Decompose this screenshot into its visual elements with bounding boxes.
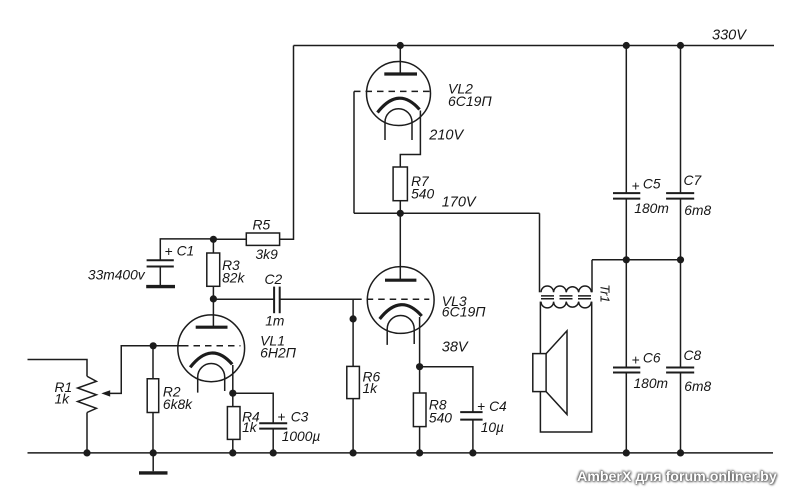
capacitor C5 (613, 193, 640, 199)
wire secondary left lead to speaker (539, 302, 541, 354)
wire R6 top lead (352, 299, 354, 366)
wire R5 left to node (213, 238, 246, 240)
svg-text:C1: C1 (177, 243, 195, 258)
svg-text:+: + (632, 178, 640, 193)
svg-text:C6: C6 (643, 350, 661, 365)
svg-text:6m8: 6m8 (684, 203, 711, 218)
tube VL3 heater (387, 316, 414, 345)
transformer Tr1 secondary winding (541, 302, 591, 308)
ground bar under C1 (146, 285, 175, 288)
svg-text:1k: 1k (55, 392, 71, 407)
tube VL3 anode (385, 279, 416, 282)
node R3 / VL1 anode / C2 (210, 295, 217, 302)
tube VL2 grid (dashed) (354, 90, 432, 92)
wire C1 bottom lead (159, 267, 161, 286)
wire C7 bottom lead (680, 199, 682, 260)
svg-text:C8: C8 (684, 348, 702, 363)
svg-text:170V: 170V (442, 194, 477, 210)
svg-text:C5: C5 (643, 176, 661, 191)
node R1 / bottom rail (83, 449, 90, 456)
svg-text:6Н2П: 6Н2П (260, 345, 297, 361)
svg-text:180m: 180m (634, 201, 669, 216)
capacitor C6 (613, 368, 640, 373)
wire VL3 cathode lead (419, 317, 421, 367)
svg-text:6С19П: 6С19П (442, 303, 486, 319)
wire 170V rail (354, 212, 540, 214)
transformer Tr1 core (541, 295, 591, 297)
svg-text:R5: R5 (253, 217, 271, 232)
ground (152, 453, 154, 471)
wire C8 top lead (680, 260, 682, 368)
node 330V rail / VL2 anode (397, 42, 404, 49)
tube VL2 heater (385, 109, 412, 140)
wire 170V rail drop to transformer (539, 213, 541, 292)
tube VL2 cathode (378, 98, 420, 112)
svg-text:330V: 330V (712, 28, 747, 44)
speaker driver box (533, 354, 546, 392)
wire bottom common rail (28, 452, 774, 454)
wire C5 top lead (625, 46, 627, 194)
resistor R4 (232, 393, 234, 406)
capacitor C8 (666, 368, 694, 373)
svg-text:38V: 38V (442, 339, 469, 355)
tube VL1 heater (198, 364, 225, 393)
wire C8 bottom lead (680, 373, 682, 453)
wire VL3 anode lead (399, 213, 401, 280)
svg-text:180m: 180m (634, 376, 669, 391)
tube VL3 grid (dashed) (355, 298, 429, 300)
node 330V rail / C7 (677, 42, 684, 49)
resistor R6 (347, 366, 360, 398)
node 170V (397, 210, 404, 217)
wire VL2 grid drop to 170V rail (353, 91, 355, 213)
svg-text:6k8k: 6k8k (163, 397, 193, 412)
svg-text:540: 540 (429, 410, 452, 425)
node R6 / bottom rail (350, 449, 357, 456)
node R2 / bottom rail / ground (150, 449, 157, 456)
capacitor C2 (274, 287, 280, 314)
tube VL2 anode (384, 72, 417, 75)
node 330V rail / C5 (623, 42, 630, 49)
node on R6 lead (350, 315, 357, 322)
svg-text:+: + (632, 352, 640, 367)
resistor R2 (152, 346, 154, 379)
capacitor C4 (460, 412, 482, 420)
node VL1 grid / R2 (150, 342, 157, 349)
node VL3 cathode / R8 / C4 (416, 363, 423, 370)
svg-text:+: + (277, 409, 285, 424)
tube VL1 cathode (190, 353, 232, 367)
capacitor C3 (259, 423, 287, 428)
watermark AmberX (577, 469, 777, 485)
wire speaker bottom loop (540, 302, 591, 432)
tube VL2 envelope (367, 62, 431, 126)
svg-text:Tr1: Tr1 (598, 284, 613, 303)
wire node to C1 (160, 239, 213, 260)
tube VL3 envelope (367, 267, 434, 334)
wire C6 top lead (625, 260, 627, 368)
svg-text:1k: 1k (363, 381, 379, 396)
svg-text:3k9: 3k9 (256, 247, 279, 262)
node R8 / bottom rail (416, 449, 423, 456)
node midrail / C7-C8 (677, 256, 684, 263)
svg-text:1000µ: 1000µ (282, 429, 321, 444)
wire cathode node to C3 (233, 393, 273, 423)
svg-text:33m400v: 33m400v (88, 268, 146, 283)
tube VL1 grid (dashed) (182, 345, 241, 347)
svg-text:210V: 210V (428, 128, 464, 144)
svg-text:1m: 1m (265, 314, 284, 329)
svg-text:6С19П: 6С19П (448, 93, 492, 109)
tube VL1 envelope (178, 315, 245, 382)
wire 330V top rail (294, 45, 775, 47)
wire VL2 cathode to R7 (400, 111, 420, 168)
wire C2 to VL3 grid (280, 298, 356, 300)
transformer Tr1 primary winding (541, 286, 591, 292)
tube VL3 cathode (380, 305, 422, 319)
resistor R3 (212, 239, 214, 253)
svg-text:6m8: 6m8 (684, 379, 711, 394)
node C6 / bottom rail (623, 449, 630, 456)
node C8 / bottom rail (677, 449, 684, 456)
node midrail / C5-C6 (623, 256, 630, 263)
node VL1 cathode / R4 / C3 (229, 390, 236, 397)
wire C5 bottom lead (625, 199, 627, 260)
wire R1 bottom lead (86, 413, 88, 453)
wire C7 top lead (680, 46, 682, 194)
node C4 / bottom rail (469, 449, 476, 456)
node R4 / bottom rail (229, 449, 236, 456)
wire VL1 cathode lead (232, 365, 234, 393)
wire cathode node to C4 (420, 367, 473, 412)
svg-text:1k: 1k (242, 420, 258, 435)
resistor R5 (246, 233, 279, 245)
tube VL1 anode (196, 326, 228, 329)
svg-text:C4: C4 (489, 399, 507, 414)
resistor R8 (419, 367, 421, 393)
svg-text:+: + (477, 399, 485, 414)
wire cap midpoint rail (592, 259, 681, 261)
capacitor C1 (147, 260, 174, 266)
wire node to C2 (213, 298, 274, 300)
svg-text:82k: 82k (222, 271, 245, 286)
wire VL1 anode lead (212, 299, 214, 327)
wire VL2 anode lead (399, 46, 401, 75)
svg-text:+: + (165, 244, 173, 259)
potentiometer R1 wiper arrow (101, 390, 110, 396)
wire C6 bottom lead (625, 373, 627, 453)
wire C3 bottom lead (272, 429, 274, 453)
speaker cone (546, 331, 567, 415)
potentiometer R1 body (78, 376, 97, 412)
svg-text:C2: C2 (265, 272, 283, 287)
wire input line (28, 360, 88, 377)
wire left drop from 330V rail to R5 (280, 46, 294, 240)
wire primary right end up to cap midpoint rail (591, 260, 593, 293)
wire VL1 grid lead (153, 345, 182, 347)
wire C4 bottom lead (472, 420, 474, 453)
svg-text:10µ: 10µ (481, 420, 504, 435)
svg-text:540: 540 (411, 186, 434, 201)
node C3 / bottom rail (270, 449, 277, 456)
resistor R7 (393, 167, 407, 201)
capacitor C7 (666, 193, 694, 199)
svg-text:C3: C3 (291, 409, 309, 424)
svg-text:C7: C7 (684, 173, 703, 188)
node R5 / R3 / C1 (210, 236, 217, 243)
